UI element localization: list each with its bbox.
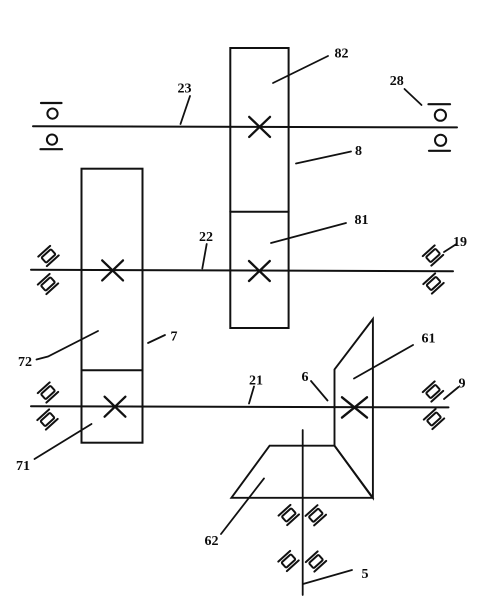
leader 21 (249, 387, 254, 404)
bearing shaft5 upper-right (306, 505, 326, 525)
X mark gear 71 on shaft 21 (105, 397, 126, 417)
X mark gear 72 on shaft 22 (102, 260, 123, 280)
svg-text:19: 19 (453, 235, 467, 250)
gear block 8 (sections 82 / 81) (230, 48, 288, 328)
gear block 7 (sections 72 / 71) (82, 169, 143, 443)
svg-text:62: 62 (205, 534, 219, 549)
svg-text:8: 8 (355, 144, 362, 159)
leader 23 (181, 96, 191, 124)
leader 22 (202, 244, 206, 269)
shaft 22 (31, 270, 453, 271)
bevel gear 62 (trapezoid) (231, 446, 372, 498)
bearing shaft21 left lower (37, 409, 57, 429)
leader 71 (35, 424, 92, 459)
svg-text:21: 21 (249, 374, 263, 389)
svg-text:22: 22 (199, 230, 213, 245)
svg-text:5: 5 (362, 567, 369, 582)
leader 28 (405, 89, 422, 105)
svg-text:71: 71 (16, 459, 30, 474)
svg-text:81: 81 (355, 213, 369, 228)
svg-text:23: 23 (178, 82, 192, 97)
leader 62 (221, 478, 264, 534)
leader 72 (37, 331, 99, 360)
shaft 23 (33, 126, 457, 127)
leader 6 (311, 381, 328, 401)
bearing 9 shaft21 right upper (423, 381, 443, 401)
svg-text:82: 82 (335, 47, 349, 62)
svg-text:7: 7 (171, 330, 178, 345)
leader 19 (444, 244, 457, 252)
bevel gear 61 (parallelogram) (335, 319, 373, 498)
bearing shaft5 lower-left (278, 551, 298, 571)
bearing shaft22 left lower (38, 274, 58, 294)
bearing 19 shaft22 right upper (423, 245, 443, 265)
bearing left of shaft 23 (41, 103, 63, 149)
leader 8 (296, 152, 351, 164)
svg-text:72: 72 (18, 355, 32, 370)
bearing shaft21 left upper (38, 382, 58, 402)
leader 5 (303, 570, 352, 584)
leader 81 (271, 223, 346, 243)
divider of gear block 8 (230, 211, 288, 213)
leader 9 (444, 387, 459, 399)
bearing 28 right of shaft 23 (429, 104, 451, 151)
svg-text:28: 28 (390, 74, 404, 89)
divider of gear block 7 (82, 369, 143, 371)
bearing shaft21 right lower (424, 409, 444, 429)
X mark gear 82 on shaft 23 (249, 117, 270, 137)
bearing shaft5 lower-right (306, 551, 326, 571)
leader 61 (354, 345, 413, 379)
svg-text:9: 9 (459, 377, 466, 392)
bearing shaft22 left upper (38, 246, 58, 266)
svg-text:61: 61 (422, 332, 436, 347)
X mark gear 81 on shaft 22 (249, 261, 270, 281)
X mark gear 6 on shaft 21 (342, 397, 367, 417)
leader 7 (148, 335, 165, 343)
leader 82 (273, 56, 328, 83)
svg-text:6: 6 (302, 370, 309, 385)
shaft 5 (302, 430, 304, 595)
shaft 21 (31, 406, 449, 407)
bearing shaft22 right lower (423, 273, 443, 293)
bearing shaft5 upper-left (279, 505, 299, 525)
